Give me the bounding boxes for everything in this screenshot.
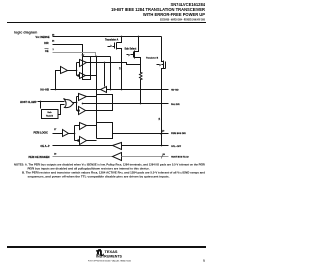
bus width 19 rotated on Q1 vertical <box>120 66 122 69</box>
cell3 feedback box <box>97 123 113 139</box>
vertical x97 long <box>96 57 98 139</box>
node PERI OE BIAS/EN label, pin 19 <box>29 154 58 160</box>
svg-text:PERI bus inputs are disabled a: PERI bus inputs are disabled and all pul… <box>28 168 150 171</box>
transistor Q1 label <box>105 39 119 42</box>
wire cell1 rail low from T2 <box>86 75 97 77</box>
transistor Q1 <box>108 37 122 57</box>
bus 19 mark on HOST BUS line <box>163 154 166 156</box>
OR gate G1 <box>64 99 74 108</box>
junction rail1 / x97 vertical <box>96 56 98 58</box>
svg-text:Transistor A: Transistor A <box>105 39 119 42</box>
svg-text:PERI BUS DIR: PERI BUS DIR <box>171 133 186 135</box>
node OE A-P label <box>40 145 49 148</box>
junction OR output / cell2 loop <box>76 102 78 104</box>
junction rail / Q2 drain <box>138 36 140 38</box>
svg-text:POST OFFICE BOX 655303 • DALLA: POST OFFICE BOX 655303 • DALLAS, TEXAS 7… <box>88 260 132 263</box>
wire OR output to cell2 <box>73 102 77 104</box>
cell3 loop left vertical <box>75 126 80 141</box>
node VCC ISENSE label, pin 28 <box>36 35 56 40</box>
svg-text:HOST BUS TA 19: HOST BUS TA 19 <box>171 156 189 159</box>
svg-text:OE A–P: OE A–P <box>40 145 49 148</box>
svg-text:DIR: DIR <box>44 42 49 45</box>
cell2 feedback box <box>97 95 113 111</box>
wire PAL DIR line <box>83 103 169 105</box>
wire cell3 rail upper <box>87 125 97 127</box>
header rule <box>7 22 206 23</box>
wire B2 output <box>69 133 75 135</box>
wire OE A-P to INV2 <box>53 145 113 147</box>
buffer T2 with input bubble <box>80 73 86 79</box>
junction Q1 vertical / HD-BD line <box>121 89 123 91</box>
wire B1 output <box>68 70 77 72</box>
node HD-BD label <box>171 90 179 92</box>
svg-text:SCES543B – MARCH 2004 – REVISE: SCES543B – MARCH 2004 – REVISED JANUARY … <box>160 18 206 21</box>
junction B2 output / cell3 loop <box>74 133 76 135</box>
inverter INV2 points left <box>113 143 122 150</box>
buffer B2 <box>63 130 69 137</box>
svg-text:OPL–OFF: OPL–OFF <box>171 146 182 148</box>
junction B1 riser <box>55 89 57 91</box>
wire top rail VCC ISENSE <box>53 36 162 38</box>
svg-text:PAL DIR: PAL DIR <box>171 103 180 106</box>
node OPL label <box>171 146 182 148</box>
wire OE (gray) <box>53 53 96 57</box>
TI logo glyph <box>96 249 104 256</box>
node HA-HB label <box>40 89 49 92</box>
cell2 loop left vertical <box>77 97 79 111</box>
junction resistor / PAL DIR <box>140 103 142 105</box>
node PAL DIR label <box>171 103 180 106</box>
bus width 19 rotated on Q3 vertical <box>159 117 161 120</box>
svg-text:HD–BD: HD–BD <box>171 90 179 92</box>
svg-text:logic diagram: logic diagram <box>14 31 37 35</box>
wire Q1 source vertical <box>121 57 123 90</box>
svg-text:WITH ERROR-FREE POWER UP: WITH ERROR-FREE POWER UP <box>143 12 205 17</box>
svg-text:INSTRUMENTS: INSTRUMENTS <box>96 254 123 258</box>
wire cell1 rail mid from T1 <box>87 63 141 65</box>
wire cell2 rail lower <box>86 110 97 112</box>
cell1 loop left vertical <box>77 63 80 76</box>
svg-text:sequences, and power off when: sequences, and power off when the TTL-co… <box>28 176 170 179</box>
wire buffer B1 input riser <box>56 71 61 90</box>
node OE label, pin 1 <box>45 49 55 54</box>
wire DIR with arrowed drop into cell 1 <box>53 45 83 55</box>
inverter INV1 points left <box>101 87 107 93</box>
svg-text:9: 9 <box>203 259 205 263</box>
buffer T6 with input bubble <box>80 137 87 145</box>
junction HOST CLAMP <box>40 101 42 103</box>
svg-text:NOTES: A. The PERI bus outpu: NOTES: A. The PERI bus outputs are disab… <box>14 164 205 167</box>
wire HA-HB / HD-BD line <box>51 89 169 91</box>
wire cell1 rail upper (to gate drops) <box>91 56 111 58</box>
svg-text:VCC ISENSE: VCC ISENSE <box>36 36 50 39</box>
svg-text:PERI LOGIC: PERI LOGIC <box>34 132 49 135</box>
buffer T4 with input bubble <box>79 107 86 115</box>
wire PERI BUS line <box>113 133 169 135</box>
transistor Q2 <box>127 37 141 65</box>
junction Q3 vertical / PERI BUS line <box>161 133 163 135</box>
node HOST BUS label <box>171 156 189 159</box>
junction rail / Q1 drain <box>121 36 123 38</box>
block SUB box <box>42 110 59 119</box>
wire OPL line right <box>122 145 169 147</box>
node PERI BUS DIR label <box>171 133 186 135</box>
transistor Q3 <box>157 37 166 146</box>
node PERI LOGIC label, pin 17 <box>34 129 58 135</box>
resistor R1 <box>140 65 143 81</box>
wire cell2 rail upper <box>87 96 97 98</box>
svg-text:OE: OE <box>45 50 49 53</box>
wire resistor bottom to PAL DIR line <box>140 81 142 104</box>
junction B1 output / cell1 loop <box>76 70 78 72</box>
node DIR label, pin 26 <box>44 41 55 46</box>
buffer T5 <box>80 123 87 130</box>
svg-text:HA–HB: HA–HB <box>40 89 49 92</box>
buffer B1 <box>61 67 68 74</box>
inverter INV3 points left <box>113 153 122 161</box>
svg-text:Sub: Sub <box>47 112 52 114</box>
buffer T1 <box>80 60 87 67</box>
node HOST CLAMP label <box>20 101 37 104</box>
svg-text:Transistor B: Transistor B <box>146 57 159 60</box>
wire PERI OE gray line to INV3 <box>53 156 113 158</box>
wire cell3 rail lower <box>87 140 97 142</box>
bus 19 mark on PERI BUS line <box>162 131 165 133</box>
wire box output to OR gate <box>59 105 65 115</box>
junction Q3 vertical / OPL line <box>161 145 163 147</box>
svg-text:Task B: Task B <box>46 116 53 118</box>
wire down to sub box <box>40 102 42 109</box>
wire HOST CLAMP to OR gate <box>38 101 65 103</box>
wire PERI LOGIC input <box>53 133 63 135</box>
junction rail1 drop <box>110 89 112 91</box>
transistor Q2 label <box>125 48 137 51</box>
footer rule <box>7 246 206 248</box>
vertical x104.5 into INV1 <box>104 63 106 87</box>
svg-text:PERI OE BIAS/EN: PERI OE BIAS/EN <box>29 156 50 159</box>
cell1 feedback box <box>83 57 91 80</box>
junction PAL DIR start <box>82 103 84 105</box>
svg-text:Sub Select: Sub Select <box>125 48 137 51</box>
svg-text:B. The PERI resistor and tran: B. The PERI resistor and transistor swit… <box>22 172 206 175</box>
wire drop x110.4 <box>110 57 112 90</box>
wire HOST BUS gray line right <box>122 156 169 158</box>
buffer T3 <box>79 94 87 101</box>
svg-text:HOST CLAMP: HOST CLAMP <box>20 101 37 104</box>
transistor Q3 label <box>146 57 159 60</box>
